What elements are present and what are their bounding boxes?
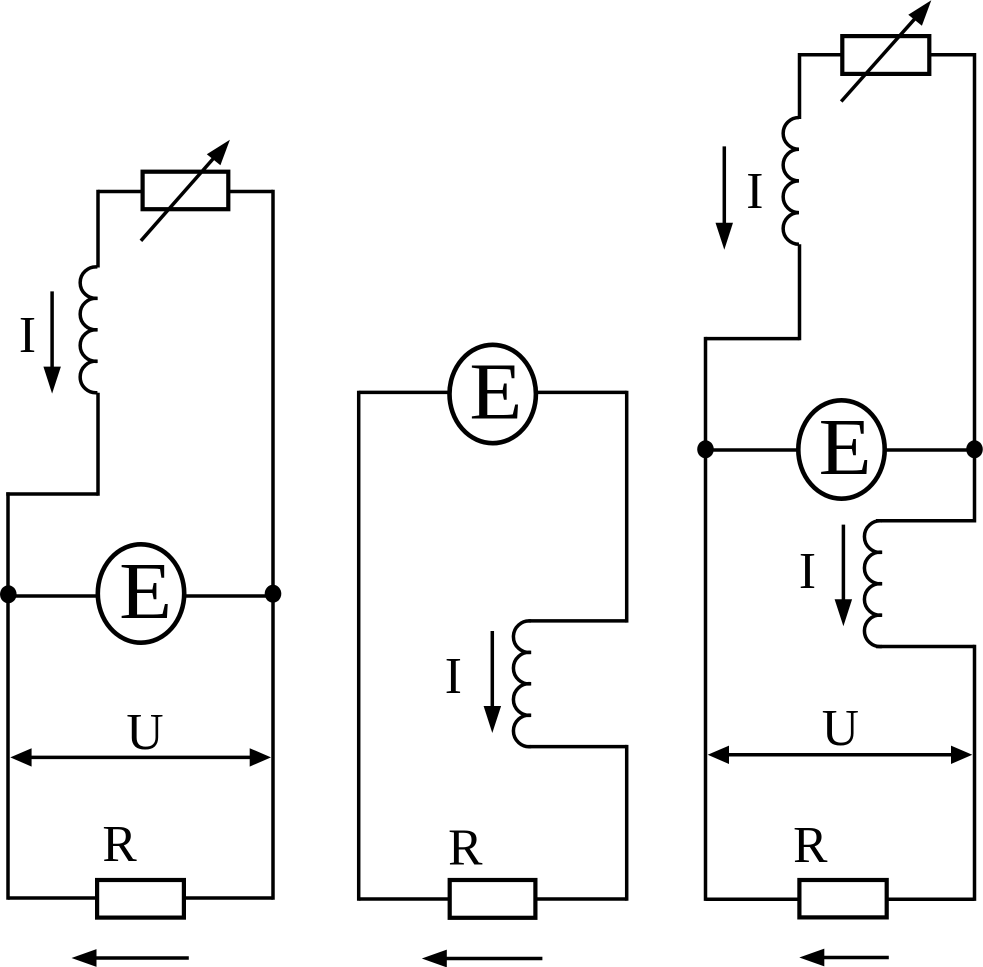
- svg-text:R: R: [793, 817, 828, 874]
- svg-text:E: E: [119, 547, 172, 637]
- svg-text:I: I: [445, 648, 462, 705]
- svg-text:U: U: [126, 704, 163, 761]
- svg-text:I: I: [746, 163, 763, 220]
- svg-text:U: U: [822, 700, 859, 757]
- svg-text:E: E: [819, 403, 872, 493]
- svg-text:I: I: [19, 307, 36, 364]
- svg-text:R: R: [102, 816, 137, 873]
- svg-text:R: R: [448, 819, 483, 876]
- svg-text:E: E: [469, 347, 522, 437]
- svg-text:I: I: [799, 543, 816, 600]
